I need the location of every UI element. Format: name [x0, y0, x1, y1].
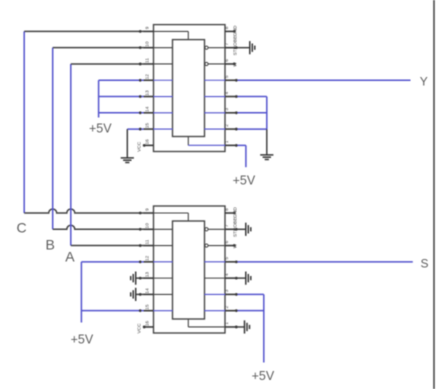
U1 pin 12: [144, 79, 154, 81]
wire U2 pin 2 branch: [235, 310, 264, 312]
wire net A to U2 pin 11: [71, 245, 144, 247]
wire U1 pin 15 to ground: [127, 128, 143, 130]
wire net A to U1 pin 11: [71, 63, 144, 65]
wire U2 pin 1 to ground: [235, 326, 245, 328]
U1 pin 10: [144, 47, 154, 49]
svg-text:GND: GND: [232, 207, 238, 218]
ground (U2 pin 7 STROBE): [246, 223, 251, 236]
svg-text:GND: GND: [232, 25, 238, 36]
U2 pin 5: [225, 261, 235, 263]
U1 pin 13: [144, 96, 154, 98]
wire +5V bus to U1 pin 12: [99, 79, 144, 81]
svg-text:S: S: [421, 256, 429, 270]
wire U1 pin 4 branch: [235, 96, 267, 98]
wire net A vertical: [70, 64, 72, 246]
U1 pin 15: [144, 128, 154, 130]
multiplexer U1 DIP outline: [154, 25, 226, 152]
wire +5V bus to U1 pin 14: [99, 112, 144, 114]
ground (U2 pin 13): [131, 272, 136, 285]
svg-text:B: B: [46, 236, 55, 252]
svg-text:8: 8: [224, 26, 230, 29]
wire U1 pin 2 branch: [235, 128, 267, 130]
svg-text:10: 10: [145, 223, 151, 229]
svg-text:14: 14: [145, 106, 151, 112]
svg-text:STROBE: STROBE: [232, 217, 238, 237]
svg-text:STROBE: STROBE: [232, 36, 238, 56]
svg-text:8: 8: [224, 208, 230, 211]
U1 pin 8: [225, 30, 235, 32]
wire net S from U2 pin 5: [235, 261, 413, 263]
svg-text:12: 12: [145, 255, 151, 261]
wire U2 pin 3 branch: [235, 293, 264, 295]
wire U1 pin 3 branch: [235, 112, 267, 114]
svg-text:W: W: [232, 243, 238, 248]
svg-text:A: A: [65, 249, 75, 265]
U1 pin 2: [225, 128, 235, 130]
svg-text:+5V: +5V: [89, 121, 112, 135]
U2 pin 9: [144, 212, 154, 214]
wire +5V bus to U2 pin 15: [81, 310, 143, 312]
svg-text:6: 6: [224, 240, 230, 243]
wire net B to U1 pin 10: [53, 47, 144, 49]
U1 pin 3: [225, 112, 235, 114]
svg-text:7: 7: [224, 224, 230, 227]
svg-text:7: 7: [224, 43, 230, 46]
U2 pin 1: [225, 326, 235, 328]
svg-text:6: 6: [224, 59, 230, 62]
wire U2 pin 4 to ground: [235, 277, 246, 279]
svg-text:VCC: VCC: [136, 323, 142, 334]
U2 pin 3: [225, 293, 235, 295]
wire U1 right bus vertical: [266, 97, 268, 130]
svg-text:10: 10: [145, 41, 151, 47]
U1 pin 7: [225, 47, 235, 49]
multiplexer U2 DIP outline: [154, 206, 226, 333]
ground (U1 pin 7 STROBE): [250, 41, 255, 54]
wire U2 pin 13 to ground: [136, 277, 144, 279]
U1 pin 6: [225, 63, 235, 65]
svg-text:W: W: [232, 62, 238, 67]
U2 pin 12: [144, 261, 154, 263]
wire U1 pin 7 to ground: [235, 47, 250, 49]
svg-text:5: 5: [224, 257, 230, 260]
svg-text:2: 2: [224, 306, 230, 309]
wire U2 pin 7 to ground: [235, 228, 246, 230]
U2 pin 14: [144, 293, 154, 295]
wire net B to U2 pin 10 (hop over A): [53, 225, 144, 229]
wire net C to U2 pin 9 (hops over B and A): [24, 209, 143, 213]
svg-text:11: 11: [145, 58, 151, 63]
wire U2 right bus vertical to +5V: [263, 294, 265, 362]
U1 pin 14: [144, 112, 154, 114]
U1 pin 16: [144, 144, 154, 146]
wire net C vertical: [23, 31, 25, 213]
svg-text:13: 13: [145, 272, 151, 278]
U2 pin 11: [144, 245, 154, 247]
wire +5V bus U2 left vertical: [80, 262, 82, 323]
svg-text:+5V: +5V: [252, 369, 275, 383]
wire net Y from U1 pin 5: [235, 79, 411, 81]
wire net B vertical: [52, 48, 54, 230]
svg-text:VCC: VCC: [136, 141, 142, 152]
svg-text:C: C: [17, 220, 27, 236]
wire +5V bus to U2 pin 12: [81, 261, 143, 263]
svg-text:15: 15: [145, 123, 151, 129]
svg-text:12: 12: [145, 74, 151, 80]
ground (U2 pin 1): [245, 320, 250, 333]
svg-text:+5V: +5V: [71, 332, 94, 346]
wire net C to U1 pin 9: [24, 30, 143, 32]
U2 pin 13: [144, 277, 154, 279]
U2 pin 16: [144, 326, 154, 328]
svg-text:4: 4: [224, 273, 230, 276]
svg-text:1: 1: [224, 140, 230, 143]
U1 pin 9: [144, 30, 154, 32]
svg-text:3: 3: [224, 289, 230, 292]
ground (U2 pin 4): [246, 272, 251, 285]
wire U1 pin 1 to +5V: [235, 144, 246, 146]
U2 pin 7: [225, 228, 235, 230]
svg-text:14: 14: [145, 288, 151, 294]
svg-text:1: 1: [224, 322, 230, 325]
svg-text:+5V: +5V: [233, 174, 256, 188]
svg-text:4: 4: [224, 91, 230, 94]
svg-text:15: 15: [145, 304, 151, 310]
wire U2 pin 14 to ground: [136, 293, 144, 295]
U1 pin 4: [225, 96, 235, 98]
svg-text:13: 13: [145, 90, 151, 96]
svg-text:2: 2: [224, 124, 230, 127]
U2 pin 6: [225, 245, 235, 247]
svg-text:9: 9: [145, 26, 151, 29]
ground (U1 pin 15): [121, 158, 134, 163]
U2 pin 8: [225, 212, 235, 214]
wire +5V bus U1 left vertical: [98, 80, 100, 117]
svg-text:3: 3: [224, 108, 230, 111]
U2 pin 10: [144, 228, 154, 230]
multiplexer U2 inner symbol: [173, 221, 205, 319]
U1 pin 5: [225, 79, 235, 81]
ground (U2 pin 14): [131, 288, 136, 301]
U2 pin 4: [225, 277, 235, 279]
svg-text:5: 5: [224, 75, 230, 78]
U2 pin 15: [144, 310, 154, 312]
ground (U1 pins 4-3-2 bus): [260, 155, 273, 160]
multiplexer U1 inner symbol: [173, 40, 205, 137]
U2 pin 2: [225, 310, 235, 312]
wire +5V bus to U1 pin 13: [99, 96, 144, 98]
svg-text:16: 16: [145, 320, 151, 326]
svg-text:9: 9: [145, 208, 151, 211]
U1 pin 1: [225, 144, 235, 146]
svg-text:Y: Y: [420, 75, 428, 89]
svg-text:16: 16: [145, 139, 151, 145]
svg-text:11: 11: [145, 239, 151, 244]
U1 pin 11: [144, 63, 154, 65]
